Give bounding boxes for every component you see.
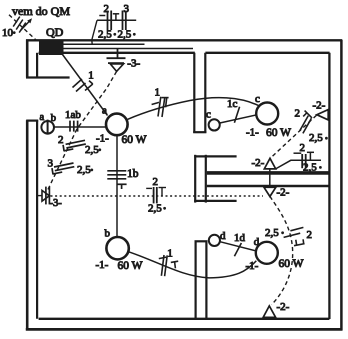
distribution board QD (filled box) [39, 41, 64, 55]
callout leader to conduit [92, 20, 97, 44]
switch d [209, 235, 220, 246]
wall: mid-right wall lower line [207, 185, 330, 187]
svg-text:1: 1 [167, 247, 173, 259]
svg-text:-1-: -1- [246, 126, 259, 138]
svg-text:1b: 1b [127, 168, 139, 180]
svg-text:3: 3 [48, 157, 54, 169]
wire: dotted circuit main run [51, 195, 264, 197]
wire: arc lamp a to lamp c [127, 98, 258, 120]
switch ab [41, 120, 54, 135]
ticks circuit 2 on dotted run [146, 187, 166, 203]
svg-text:60 W: 60 W [266, 127, 291, 139]
svg-text:2: 2 [58, 134, 64, 146]
svg-text:-2-: -2- [277, 187, 290, 199]
svg-text:-3-: -3- [50, 198, 63, 209]
wall: mid-right wall upper line (thick) [207, 171, 330, 175]
wire: dashed circuit 3 diagonal [48, 71, 117, 189]
wire: conduit run 2 from QD [64, 48, 194, 50]
outlet -2- on right wall (triangle) [317, 110, 328, 120]
ticks circuit 2 on dashed wire [300, 111, 312, 134]
svg-text:2,5: 2,5 [148, 202, 162, 214]
ticks 1ab (three bars) [70, 121, 78, 132]
wall: inner left upper segment [36, 53, 38, 78]
conductor ticks circuit 2 (callout) [99, 11, 119, 31]
wire: conduit run 1 from QD [64, 43, 145, 45]
wall: outer bottom [26, 328, 343, 331]
svg-text:-3-: -3- [127, 57, 140, 69]
wire: switch d to lamp d [220, 242, 256, 251]
wire: switch ab to lamp a [54, 126, 106, 128]
callout line mid-right [275, 160, 321, 169]
wire: switch c to lamp c [220, 115, 257, 123]
feeder arrow stroke [21, 20, 32, 31]
ticks circuit 2 on diagonal [63, 140, 86, 151]
wall: inner right [328, 53, 330, 319]
svg-text:2,5: 2,5 [85, 144, 99, 156]
wire: curve lamp b to lamp d [129, 252, 257, 278]
outlet -2- on bottom wall (triangle up) [263, 306, 275, 320]
callout line top-left [97, 19, 136, 21]
ticks circuit 1 on b-d curve [159, 255, 178, 276]
wall: door-opening cap on left wall [26, 119, 38, 121]
lamp a [106, 114, 128, 136]
conductor ticks circuit 3 (callout) [123, 11, 126, 31]
wall: outer left lower segment [26, 120, 29, 330]
svg-text:60 W: 60 W [279, 258, 304, 270]
ticks circuit 2 near lamp d [284, 227, 305, 245]
ticks circuit 3 on diagonal [52, 163, 74, 174]
lamp d [256, 242, 278, 264]
wall: V2 bottom line [194, 200, 236, 202]
outlet -2- below mid wall (triangle down) [264, 187, 276, 196]
svg-text:a: a [102, 105, 107, 117]
wall: V2 top line [194, 155, 236, 157]
svg-text:-1-: -1- [96, 133, 109, 145]
wire: connector between mid outlets [269, 169, 271, 187]
svg-text:1c: 1c [227, 98, 238, 110]
wire: drop from conduit to outlet -3- [117, 49, 119, 59]
switch c [209, 119, 220, 130]
svg-text:2: 2 [153, 176, 159, 188]
svg-text:a: a [40, 112, 45, 123]
wire: dashed circuit 2 curve to bottom outlet [270, 197, 293, 305]
wall: outer top [26, 39, 342, 41]
wire: QD to lamp a [63, 55, 108, 116]
tick 1c [234, 107, 239, 123]
svg-text:-2-: -2- [313, 99, 326, 111]
conductor ticks (mid-right callout) [294, 152, 315, 168]
wall: outer left upper segment [26, 40, 29, 78]
svg-text:QD: QD [46, 25, 64, 39]
svg-text:d: d [254, 236, 260, 248]
svg-text:d: d [220, 230, 226, 242]
svg-text:c: c [255, 93, 260, 105]
svg-text:vem do QM: vem do QM [12, 4, 70, 18]
svg-text:b: b [105, 227, 111, 239]
svg-text:c: c [206, 109, 211, 121]
svg-text:1: 1 [155, 87, 161, 99]
wall: inner bottom [39, 318, 330, 320]
svg-text:10: 10 [2, 27, 14, 39]
svg-text:2,5: 2,5 [265, 227, 279, 239]
svg-text:2,5: 2,5 [303, 162, 317, 174]
wall: outer right [340, 40, 343, 331]
svg-text:3: 3 [124, 3, 130, 15]
svg-text:2: 2 [104, 3, 110, 15]
svg-text:2: 2 [307, 229, 313, 241]
svg-text:-2-: -2- [252, 157, 265, 169]
outlet -3- on top wall (bars + inverted triangle) [107, 58, 126, 71]
svg-text:60 W: 60 W [118, 260, 143, 272]
wall: middle stub V2 left line [194, 155, 196, 203]
wall: inner left lower segment [36, 120, 38, 318]
svg-text:2,5: 2,5 [98, 29, 112, 41]
wall: ledge below QD closet [26, 76, 70, 78]
wall: V3 top cap [195, 240, 208, 242]
wire: dashed circuit 2 right wall to mid triangle [270, 115, 316, 158]
outlet -2- above mid wall (triangle up) [264, 158, 275, 169]
tick 1d [234, 243, 241, 256]
wire: feeder from QM (dashed) [9, 15, 37, 41]
ticks circuit 1 on QD-a wire [73, 79, 93, 92]
label 2,5 2,5 (callout) [98, 29, 136, 41]
svg-text:2: 2 [300, 142, 306, 154]
svg-text:1ab: 1ab [65, 109, 81, 121]
feeder conductor slashes [13, 17, 26, 33]
svg-text:60 W: 60 W [122, 134, 147, 146]
wall: middle stub V2 right line [205, 155, 207, 203]
ticks 1b (three bars + return) [107, 171, 126, 189]
wall: central vertical wall V1 right line [204, 53, 206, 133]
svg-text:-1-: -1- [96, 259, 109, 271]
wall: lower vertical wall V3 left line [195, 241, 197, 318]
svg-text:-2-: -2- [277, 301, 290, 313]
svg-text:1: 1 [88, 70, 94, 82]
ticks circuit 1 on arc [152, 97, 169, 117]
wall: central vertical wall V1 left line [193, 53, 195, 133]
wall: lower vertical wall V3 right line [205, 241, 207, 318]
svg-text:1d: 1d [234, 232, 246, 244]
wire: lamp a to lamp b [116, 135, 118, 237]
svg-text:2,5: 2,5 [77, 164, 91, 176]
svg-text:2,5: 2,5 [118, 29, 132, 41]
lamp b [106, 237, 128, 259]
svg-text:2,5: 2,5 [309, 132, 323, 144]
wall: inner top right span [205, 52, 329, 54]
svg-text:2: 2 [295, 108, 301, 120]
svg-text:b: b [51, 113, 56, 124]
lamp c [256, 103, 278, 125]
outlet -3- on left wall (triangle + bars) [38, 187, 49, 205]
wall: V1 bottom cap [193, 131, 206, 133]
wall: inner top left span [39, 52, 195, 54]
